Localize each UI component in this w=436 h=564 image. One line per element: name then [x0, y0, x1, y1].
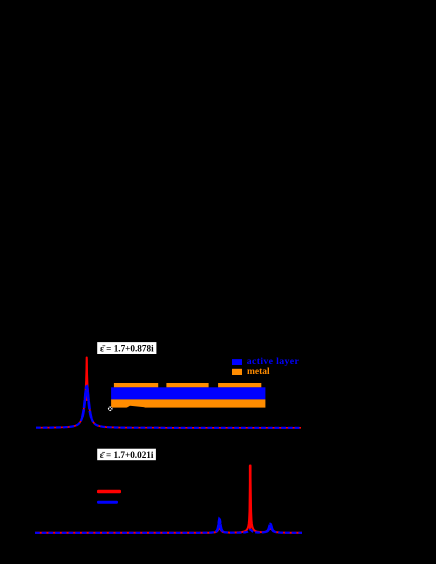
top plot: blue dashed curve [36, 386, 301, 427]
inset structure: metal grating strip 3 [218, 383, 261, 387]
bottom blue peak overlay right [267, 524, 275, 532]
inset structure: metal grating strip 2 [166, 383, 208, 387]
bottom legend: red line sample [97, 490, 121, 494]
svg-text:ε̄ = 1.7+0.878i: ε̄ = 1.7+0.878i [100, 344, 154, 354]
origin marker (circled cross) [108, 407, 113, 412]
inset structure: active layer (blue) [111, 387, 265, 399]
svg-text:active layer: active layer [247, 356, 300, 367]
top red spike reinforcement [86, 358, 88, 400]
svg-text:ε̄ = 1.7+0.021i: ε̄ = 1.7+0.021i [100, 450, 154, 460]
bottom plot: blue dashed curve [35, 519, 302, 533]
black wedge mark on bottom metal edge [126, 406, 145, 409]
svg-text:metal: metal [247, 367, 270, 377]
legend: metal swatch [232, 369, 242, 375]
bottom plot: red solid curve (eps=1.7+0.021i) [35, 465, 302, 533]
top plot: red solid absorption curve (eps=1.7+0.878i) [36, 359, 301, 428]
inset structure: metal grating strip 1 [114, 383, 158, 387]
bottom legend: blue line sample [97, 501, 118, 504]
legend: active layer swatch [232, 359, 242, 365]
annotation box: eps = 1.7+0.021i [97, 448, 157, 460]
annotation box: eps = 1.7+0.878i [97, 342, 157, 355]
top blue peak overlay [82, 386, 91, 417]
inset structure: metal back layer (orange) [111, 399, 265, 407]
bottom blue peak overlay left [216, 519, 224, 532]
bottom red spike reinforcement [249, 466, 252, 528]
